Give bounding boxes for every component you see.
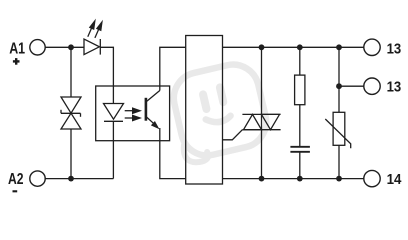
resistor R1	[295, 47, 305, 147]
node junction top-left	[68, 44, 74, 50]
opto LED	[104, 104, 124, 122]
node dot capacitor bottom	[297, 176, 303, 182]
triac V1	[223, 47, 281, 178]
node dot resistor top	[297, 44, 303, 50]
svg-text:13: 13	[387, 41, 402, 57]
svg-text:13: 13	[387, 80, 402, 96]
svg-text:14: 14	[387, 172, 403, 188]
node dot triac top	[259, 44, 265, 50]
TVS suppressor diode	[61, 47, 81, 178]
node dot varistor top	[336, 44, 342, 50]
node dot 13 branch	[336, 83, 342, 89]
wire LED to optocoupler	[100, 47, 113, 103]
terminal 13 upper	[364, 39, 380, 55]
svg-text:A2: A2	[8, 171, 24, 188]
top rail right	[223, 46, 365, 48]
optocoupler U1 box	[96, 86, 170, 141]
wire opto LED cathode down	[112, 121, 114, 178]
wire collector to SSR	[160, 47, 186, 90]
node junction bottom-left	[68, 176, 74, 182]
terminal 13 lower	[364, 78, 380, 94]
wire A2 rail	[45, 178, 113, 180]
terminal A2	[30, 171, 45, 186]
label minus	[13, 190, 18, 192]
SSR block	[186, 36, 223, 185]
phototransistor Q1	[146, 91, 160, 130]
node dot triac bottom	[259, 176, 265, 182]
watermark	[167, 59, 272, 165]
light arrows	[125, 107, 142, 121]
bottom rail right	[223, 178, 365, 180]
svg-text:A1: A1	[9, 41, 25, 58]
varistor R2	[325, 86, 350, 178]
capacitor C1	[290, 147, 310, 179]
wire A1 to LED	[45, 46, 84, 48]
terminal A1	[30, 40, 45, 55]
branch wire to 13 lower	[339, 47, 364, 86]
LED D1 indicator	[84, 19, 103, 55]
wire emitter to SSR	[160, 128, 186, 179]
terminal 14	[364, 170, 380, 186]
label plus	[13, 58, 20, 65]
node dot varistor bottom	[336, 176, 342, 182]
